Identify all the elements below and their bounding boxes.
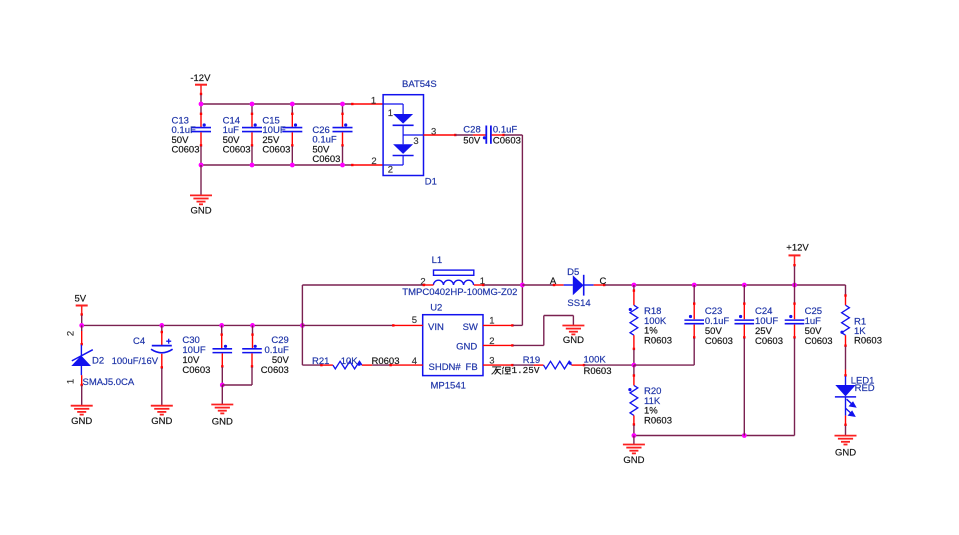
svg-text:C0603: C0603 [262,145,290,156]
svg-text:C: C [599,276,606,287]
svg-text:R0603: R0603 [584,366,612,377]
svg-text:RED: RED [855,383,875,394]
svg-text:-12V: -12V [190,73,211,84]
svg-text:A: A [550,276,557,287]
svg-text:U2: U2 [430,302,442,313]
svg-text:C0603: C0603 [493,136,521,147]
svg-text:GND: GND [71,416,92,427]
svg-text:C4: C4 [133,336,145,347]
svg-text:SW: SW [463,322,478,333]
svg-text:GND: GND [623,455,644,466]
svg-text:VIN: VIN [428,322,444,333]
svg-text:GND: GND [563,335,584,346]
svg-text:C0603: C0603 [805,336,833,347]
svg-text:GND: GND [212,417,233,428]
svg-text:R0603: R0603 [644,416,672,427]
svg-text:C0603: C0603 [261,365,289,376]
svg-text:5V: 5V [74,293,86,304]
svg-text:C0603: C0603 [705,336,733,347]
svg-text:R0603: R0603 [644,336,672,347]
svg-text:MP1541: MP1541 [431,380,466,391]
svg-text:3: 3 [431,126,436,137]
svg-text:C0603: C0603 [172,145,200,156]
svg-text:D1: D1 [425,177,437,188]
svg-text:C0603: C0603 [312,154,340,165]
svg-text:SS14: SS14 [567,298,590,309]
svg-text:C28: C28 [463,125,480,136]
svg-text:GND: GND [456,342,477,353]
svg-text:D5: D5 [567,267,579,278]
svg-text:100K: 100K [584,354,607,365]
svg-text:L1: L1 [432,255,443,266]
svg-text:3: 3 [413,136,418,147]
svg-text:FB: FB [466,362,478,373]
svg-text:SHDN#: SHDN# [429,362,462,373]
svg-text:C0603: C0603 [755,336,783,347]
svg-text:5: 5 [412,315,417,326]
svg-text:2: 2 [388,165,393,176]
svg-text:R21: R21 [312,356,329,367]
svg-text:+12V: +12V [786,243,809,254]
svg-text:C0603: C0603 [182,365,210,376]
svg-text:2: 2 [371,156,376,167]
svg-text:1: 1 [388,108,393,119]
svg-text:TMPC0402HP-100MG-Z02: TMPC0402HP-100MG-Z02 [402,287,517,298]
svg-text:GND: GND [151,416,172,427]
svg-text:0.1uF: 0.1uF [493,124,517,135]
svg-text:1: 1 [371,96,376,107]
svg-text:R0603: R0603 [372,356,400,367]
svg-text:BAT54S: BAT54S [402,79,437,90]
svg-text:1.25V: 1.25V [512,365,540,376]
svg-text:1: 1 [66,379,77,384]
svg-text:50V: 50V [463,136,481,147]
svg-text:SMAJ5.0CA: SMAJ5.0CA [83,377,135,388]
svg-text:100uF/16V: 100uF/16V [112,356,159,367]
svg-text:10K: 10K [341,356,359,367]
svg-text:D2: D2 [92,355,104,366]
svg-text:GND: GND [835,447,856,458]
svg-text:GND: GND [190,205,211,216]
svg-text:R0603: R0603 [854,336,882,347]
svg-text:C0603: C0603 [223,145,251,156]
svg-text:2: 2 [66,331,77,336]
